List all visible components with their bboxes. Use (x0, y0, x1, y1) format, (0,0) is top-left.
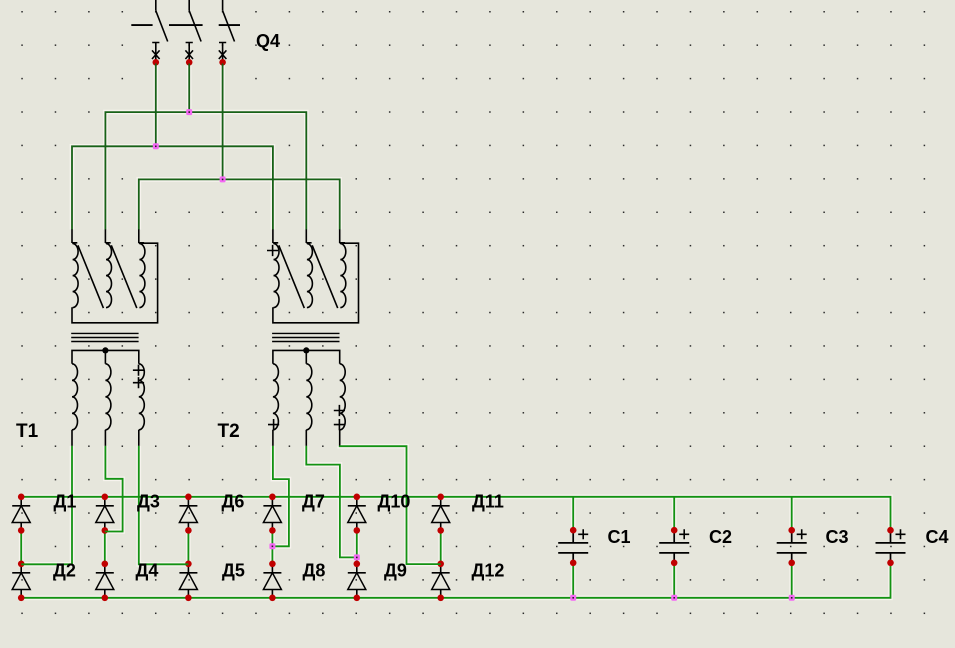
breaker Q4 pole 3 lower contact (219, 43, 226, 62)
junction Д4 cathode (102, 561, 109, 568)
junction T2 left at column 4 (269, 543, 275, 549)
junction C4 - pin (887, 560, 894, 567)
breaker Q4 pole 2 X contact mark (185, 50, 193, 59)
svg-text:T2: T2 (218, 421, 240, 442)
T2 primary coil 2 (306, 243, 312, 308)
junction Д1 anode (18, 527, 25, 534)
junction C3 on DC- bus (789, 595, 795, 601)
junction Д7 anode (269, 527, 276, 534)
circuit breaker Q4 dashed linkage bar (131, 24, 240, 26)
wire DC+ top bus (21, 497, 890, 530)
wire T1 sec right to D6/D5 midpoint (139, 446, 189, 564)
T1 secondary coil 3 lead (138, 430, 140, 446)
junction Д8 cathode (269, 561, 276, 568)
capacitor C4 (876, 529, 906, 563)
svg-text:Д7: Д7 (302, 492, 325, 512)
wire midpoint column 4 (271, 530, 273, 563)
wire T2 sec left to D7/D8 midpoint (272, 446, 289, 546)
wire T1 sec left to D1/D2 midpoint (21, 446, 72, 564)
diode Д3 (96, 497, 114, 531)
svg-text:Д9: Д9 (384, 560, 407, 580)
svg-text:Д2: Д2 (53, 560, 76, 580)
wire phase A from Q4 (155, 64, 157, 147)
capacitor C2 (659, 529, 689, 563)
diode Д4 (96, 564, 114, 598)
T2 primary delta diagonal 1 (279, 245, 305, 308)
polarity mark T2 sec right coil upper (334, 405, 345, 416)
junction Д9 cathode (354, 561, 361, 568)
wire phase C from Q4 (222, 64, 224, 180)
svg-text:T1: T1 (16, 421, 39, 442)
T2 primary coil 3 (340, 243, 346, 308)
svg-text:Д12: Д12 (472, 560, 505, 580)
junction Д2 anode on DC- bus (18, 595, 25, 602)
T2 secondary top bus (273, 350, 340, 363)
T1 secondary coil 3 (139, 364, 145, 430)
svg-text:Д5: Д5 (222, 560, 245, 580)
svg-text:Д10: Д10 (378, 492, 411, 512)
junction Д11 anode (437, 527, 444, 534)
polarity mark T1 sec right coil upper (133, 365, 144, 376)
junction dot pole 1 output (153, 59, 160, 66)
T1 secondary coil 1 lead (71, 430, 73, 446)
wire phase B bus to T1/T2 mid pins (105, 112, 306, 230)
diode Д1 (12, 497, 30, 531)
breaker Q4 pole 1 lower contact (152, 43, 159, 62)
junction C2 on DC- bus (671, 595, 677, 601)
breaker Q4 pole 3 blade (223, 11, 235, 42)
breaker Q4 pole 2 upper lead (188, 0, 190, 11)
T1 primary coil 1 (72, 243, 78, 308)
breaker Q4 pole 1 upper lead (155, 0, 157, 11)
T1 core (71, 333, 138, 341)
T1 primary delta diagonal 1 (78, 245, 104, 308)
diode Д10 (348, 497, 366, 531)
breaker Q4 pole 3 upper lead (222, 0, 224, 11)
junction T2 mid at column 5 (354, 554, 360, 560)
T1 primary coil 3 (139, 243, 145, 308)
diode Д6 (179, 497, 197, 531)
junction Д10 cathode on DC+ bus (354, 494, 361, 501)
svg-text:Д1: Д1 (54, 492, 77, 512)
T1 primary delta diagonal 2 (111, 245, 137, 308)
wire C2 to DC- (673, 563, 675, 598)
svg-text:C3: C3 (826, 527, 849, 547)
polarity mark T2 sec left coil (268, 419, 279, 430)
svg-text:C4: C4 (926, 527, 949, 547)
polarity mark T1 sec right coil lower (133, 377, 144, 388)
junction Д8 anode on DC- bus (269, 595, 276, 602)
T1 primary coil 2 (105, 243, 111, 308)
junction Д3 cathode on DC+ bus (102, 494, 109, 501)
junction phase A (153, 143, 159, 149)
T1 secondary coil 2 (105, 364, 111, 430)
svg-text:C2: C2 (709, 527, 732, 547)
junction C3 + pin (788, 527, 795, 534)
junction Д4 anode on DC- bus (102, 595, 109, 602)
wire DC+ to C1 (572, 497, 574, 530)
capacitor C1 (558, 529, 588, 563)
T2 primary delta diagonal 2 (312, 245, 338, 308)
T2 secondary centre junction dot (303, 347, 309, 353)
breaker Q4 pole 2 lower contact (186, 43, 193, 62)
breaker Q4 pole 1 X contact mark (152, 50, 160, 59)
T2 primary outline (273, 243, 359, 323)
diode Д8 (263, 564, 281, 598)
diode Д9 (348, 564, 366, 598)
T2 secondary coil 1 lead (272, 430, 274, 446)
T2 primary coil 1 (273, 243, 279, 308)
capacitor C3 (777, 529, 807, 563)
junction C2 + pin (671, 527, 678, 534)
junction C1 - pin (570, 560, 577, 567)
junction C1 + pin (570, 527, 577, 534)
junction phase C (220, 176, 226, 182)
wire phase A bus to T1/T2 left pins (72, 146, 273, 229)
junction C2 - pin (671, 560, 678, 567)
junction Д5 cathode (185, 561, 192, 568)
svg-text:C1: C1 (608, 527, 631, 547)
junction Д5 anode on DC- bus (185, 595, 192, 602)
diode Д12 (432, 564, 450, 598)
wire C1 to DC- (572, 563, 574, 598)
breaker Q4 pole 3 X contact mark (219, 50, 227, 59)
T1 secondary centre junction dot (102, 347, 108, 353)
junction dot pole 3 output (219, 59, 226, 66)
T1 secondary coil 1 (72, 364, 78, 430)
junction C4 + pin (887, 527, 894, 534)
svg-text:Д3: Д3 (137, 492, 160, 512)
junction Д6 anode (185, 527, 192, 534)
svg-text:Д6: Д6 (222, 492, 245, 512)
junction dot pole 2 output (186, 59, 193, 66)
T2 secondary coil 3 lead (339, 430, 341, 446)
wire T2 sec mid to D10/D9 midpoint (306, 446, 357, 558)
svg-text:Д8: Д8 (303, 560, 326, 580)
wire DC+ to C3 (791, 497, 793, 530)
svg-text:Д4: Д4 (136, 560, 159, 580)
wire C3 to DC- (791, 563, 793, 598)
wire midpoint column 6 (440, 530, 442, 563)
wire DC- bottom bus (21, 563, 890, 598)
transformer T1 primary pins (72, 229, 139, 243)
breaker Q4 pole 1 blade (156, 11, 168, 42)
wire phase C bus to T1/T2 right pins (139, 179, 340, 229)
junction Д2 cathode (18, 561, 25, 568)
svg-text:Д11: Д11 (472, 492, 504, 512)
junction C3 - pin (788, 560, 795, 567)
T2 secondary coil 1 (273, 364, 279, 430)
wire phase B from Q4 (188, 64, 190, 113)
breaker Q4 pole 2 blade (189, 11, 201, 42)
junction Д12 anode on DC- bus (437, 595, 444, 602)
diode Д5 (179, 564, 197, 598)
wire midpoint column 1 (20, 530, 22, 563)
wire midpoint column 5 (356, 530, 358, 563)
diode Д7 (263, 497, 281, 531)
polarity mark T2 primary left coil (267, 245, 278, 256)
junction Д3 anode (102, 527, 109, 534)
junction Д10 anode (354, 527, 361, 534)
wire T2 sec right to D11/D12 midpoint (340, 446, 441, 564)
diode Д2 (12, 564, 30, 598)
junction Д9 anode on DC- bus (354, 595, 361, 602)
T2 secondary coil 2 (306, 364, 312, 430)
T2 secondary coil 2 lead (305, 430, 307, 446)
svg-text:Q4: Q4 (256, 31, 280, 51)
T1 primary outline (72, 243, 158, 323)
junction phase B (186, 109, 192, 115)
polarity mark T2 sec right coil lower (334, 419, 345, 430)
wire DC+ to C2 (673, 497, 675, 530)
junction C1 on DC- bus (570, 595, 576, 601)
junction Д12 cathode (437, 561, 444, 568)
wire midpoint column 3 (187, 530, 189, 563)
junction Д11 cathode on DC+ bus (437, 494, 444, 501)
junction Д6 cathode on DC+ bus (185, 494, 192, 501)
wire T1 sec mid to D3/D4 midpoint (105, 446, 123, 532)
T1 secondary top bus (72, 350, 139, 363)
diode Д11 (432, 497, 450, 531)
T1 secondary coil 2 lead (104, 430, 106, 446)
junction Д1 cathode on DC+ bus (18, 494, 25, 501)
junction Д7 cathode on DC+ bus (269, 494, 276, 501)
transformer T2 primary pins (273, 229, 340, 243)
T2 core (272, 333, 339, 341)
wire midpoint column 2 (104, 530, 106, 563)
T2 secondary coil 3 (340, 364, 346, 430)
